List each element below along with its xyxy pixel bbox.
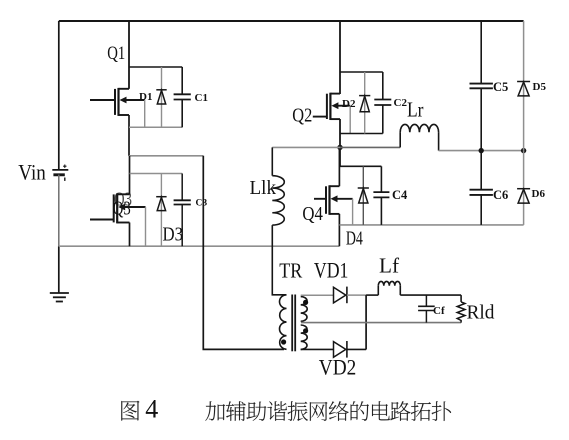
svg-text:D6: D6 — [532, 188, 546, 200]
svg-text:D4: D4 — [346, 228, 363, 250]
svg-text:Lf: Lf — [379, 254, 400, 278]
svg-text:Vin: Vin — [18, 160, 46, 185]
inductor Llk — [272, 147, 284, 225]
svg-text:VD2: VD2 — [319, 354, 357, 379]
svg-text:Llk: Llk — [250, 177, 277, 199]
wire Q3 snubber top — [130, 173, 183, 175]
wire Q2 snubber top — [340, 71, 383, 73]
diode VD2 — [334, 341, 347, 358]
capacitor C6 — [470, 151, 493, 225]
node midpoint right leg — [337, 145, 342, 150]
wire left rail to ground — [58, 246, 60, 292]
svg-text:C1: C1 — [195, 92, 208, 104]
svg-text:4: 4 — [145, 395, 158, 424]
node D5 D6 junction — [521, 148, 526, 153]
wire Q2 source to midpoint dot — [339, 119, 341, 166]
wire secondary bottom to VD2 — [301, 348, 334, 350]
capacitor C4 — [373, 166, 389, 225]
capacitor C5 — [470, 21, 493, 151]
ground — [50, 293, 69, 302]
transistor Q1 — [90, 88, 145, 127]
wire Q4 snubber top — [339, 165, 381, 167]
wire rectifier bus — [365, 295, 367, 349]
node C5 C6 junction — [479, 148, 484, 153]
wire Llk bottom to primary top — [272, 225, 286, 295]
svg-text:C4: C4 — [392, 188, 408, 202]
wire bottom rail — [59, 245, 340, 247]
capacitor C2 — [374, 72, 391, 134]
diode VD1 — [334, 287, 347, 304]
svg-text:Lr: Lr — [407, 98, 424, 122]
wire bus to Lf — [366, 294, 378, 296]
caption 图 4 — [121, 395, 158, 424]
wire midpoint to Llk top — [272, 146, 340, 148]
wire left rail lower (Vin-) — [58, 175, 60, 247]
wire right leg top (to Q2 drain) — [339, 21, 341, 94]
svg-text:D5: D5 — [533, 81, 547, 93]
transistor Q2 — [313, 93, 350, 134]
wire midrail down to primary bottom — [203, 156, 284, 350]
svg-text:C3: C3 — [196, 199, 208, 209]
svg-text:Cf: Cf — [433, 305, 445, 317]
wire left leg top (to Q1 drain) — [128, 21, 130, 89]
svg-text:Q4: Q4 — [302, 203, 323, 225]
label Q3 ghost print — [114, 189, 132, 211]
svg-text:VD1: VD1 — [314, 258, 349, 283]
wire left rail upper (Vin+) — [58, 21, 60, 170]
wire Q2 snubber bottom — [340, 133, 383, 135]
caption 加辅助谐振网络的电路拓扑 — [205, 401, 451, 421]
wire Q1 snubber top — [129, 66, 182, 68]
battery Vin — [52, 165, 68, 181]
wire VD2 cathode to bus — [347, 348, 366, 350]
wire center tap to output return — [301, 322, 461, 324]
diode D2 — [359, 72, 370, 134]
wire left leg Q3 drain — [129, 156, 131, 195]
svg-text:D2: D2 — [342, 98, 356, 110]
capacitor C3 — [174, 174, 191, 247]
transformer TR secondary winding 1 — [301, 297, 308, 322]
transformer TR core — [292, 295, 295, 352]
transistor Q4 — [314, 185, 353, 225]
inductor Lr — [400, 124, 438, 150]
svg-text:TR: TR — [279, 259, 303, 283]
node primary polarity dot — [281, 339, 286, 344]
capacitor Cf — [418, 295, 435, 323]
wire Lr to C5 D5 branch — [439, 150, 524, 152]
wire right bottom rail (Q4 source to C6 D6) — [339, 224, 523, 226]
svg-text:Rld: Rld — [467, 301, 495, 323]
svg-text:C2: C2 — [394, 97, 408, 109]
wire left midrail — [129, 155, 203, 157]
svg-text:D1: D1 — [139, 91, 152, 103]
resistor Rld — [457, 295, 465, 323]
diode D4 — [358, 166, 369, 225]
capacitor C1 — [174, 67, 191, 127]
wire secondary top to VD1 — [301, 294, 334, 296]
transformer TR primary — [279, 295, 286, 350]
diode D6 — [517, 151, 530, 225]
wire top rail — [59, 20, 524, 22]
node secondary dot 2 — [303, 328, 308, 333]
wire Q1 snubber bottom — [129, 126, 182, 128]
wire VD1 cathode to bus — [347, 294, 366, 296]
svg-text:Q1: Q1 — [107, 43, 125, 64]
wire Q3 source to bottom rail — [129, 223, 131, 247]
wire Q4 drain leg — [338, 147, 340, 186]
svg-text:Q2: Q2 — [292, 104, 312, 126]
node secondary dot 1 — [303, 300, 308, 305]
svg-text:C5: C5 — [493, 80, 508, 94]
transformer TR secondary winding 2 — [301, 325, 308, 349]
wire Lf to load — [400, 294, 461, 296]
diode D1 — [156, 67, 166, 127]
wire Lr left — [340, 146, 400, 148]
diode D3 — [156, 174, 166, 247]
transistor Q3 — [90, 193, 146, 246]
inductor Lf — [378, 281, 400, 295]
svg-text:C6: C6 — [493, 188, 508, 202]
wire Q1 source to midpoint — [128, 115, 130, 156]
wire Q4 source to bottom rail — [338, 214, 340, 246]
diode D5 — [517, 21, 530, 151]
svg-text:D3: D3 — [163, 224, 184, 246]
